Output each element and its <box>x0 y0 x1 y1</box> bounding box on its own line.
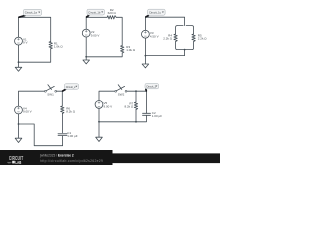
svg-text:9 V: 9 V <box>23 41 28 45</box>
svg-text:9.00 V: 9.00 V <box>91 33 100 37</box>
svg-text:SW1: SW1 <box>47 92 54 96</box>
svg-text:8.2k Ω: 8.2k Ω <box>124 105 134 109</box>
svg-text:1.00 µF: 1.00 µF <box>152 114 162 118</box>
svg-text:2.2k Ω: 2.2k Ω <box>163 37 173 41</box>
svg-text:jwhite2323 / Exercise 2: jwhite2323 / Exercise 2 <box>39 154 74 158</box>
svg-text:Circuit_1c: Circuit_1c <box>149 11 162 15</box>
svg-text:2.2k Ω: 2.2k Ω <box>198 37 208 41</box>
svg-text:1.00 µF: 1.00 µF <box>67 134 77 138</box>
svg-text:LAB: LAB <box>15 160 21 165</box>
svg-text:Circuit_1b: Circuit_1b <box>88 10 101 14</box>
svg-text:8.2k Ω: 8.2k Ω <box>66 109 76 113</box>
svg-text:Circuit_2: Circuit_2 <box>66 86 76 89</box>
svg-text:1.0k Ω: 1.0k Ω <box>54 45 64 49</box>
svg-text:620 Ω: 620 Ω <box>108 11 117 15</box>
svg-text:4.50 V: 4.50 V <box>150 34 159 38</box>
svg-text:9.00 V: 9.00 V <box>104 104 113 108</box>
svg-text:http://circuitlab.com/c/pd62s2: http://circuitlab.com/c/pd62s262e29 <box>40 159 103 163</box>
svg-text:9.00 V: 9.00 V <box>23 110 32 114</box>
svg-text:SW2: SW2 <box>118 92 125 96</box>
svg-text:1.0k Ω: 1.0k Ω <box>126 48 136 52</box>
svg-text:Circuit_3: Circuit_3 <box>146 86 156 89</box>
svg-text:Circuit_1a: Circuit_1a <box>25 11 38 15</box>
